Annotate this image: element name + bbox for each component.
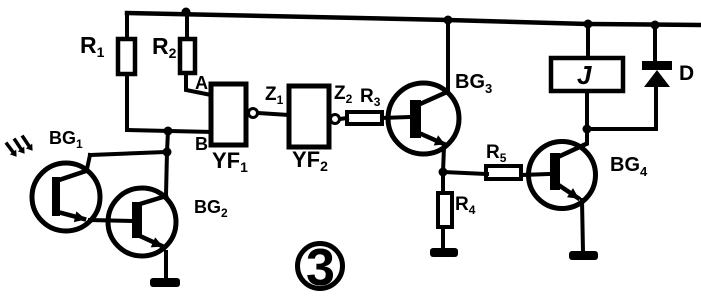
transistor BG1 (photo) xyxy=(32,155,100,231)
wire R1 bottom lead xyxy=(125,74,129,130)
node BG3 emitter junction xyxy=(439,168,448,177)
resistor R5 xyxy=(486,166,521,179)
wire R3 to BG3 base xyxy=(382,117,411,118)
resistor R3 xyxy=(347,112,382,124)
wire R2 top lead xyxy=(185,12,189,39)
wire R5 to BG4 base xyxy=(521,174,550,175)
wire relay bottom lead xyxy=(585,91,589,129)
wire YF2 output to R3 xyxy=(340,118,347,119)
svg-text:B: B xyxy=(195,134,208,154)
wire collectors horizontal xyxy=(90,152,167,155)
node collectors junction xyxy=(163,148,172,157)
figure number 3 xyxy=(298,239,343,297)
transistor BG4 xyxy=(529,129,596,252)
node BG3 collector on rail xyxy=(444,16,453,25)
svg-text:3: 3 xyxy=(306,239,335,297)
wire top supply rail xyxy=(127,13,700,25)
node diode top on rail xyxy=(651,21,660,30)
node R2 top junction xyxy=(182,8,191,17)
svg-text:D: D xyxy=(679,62,694,85)
wire relay top lead xyxy=(586,24,590,58)
resistor R4 xyxy=(438,193,452,227)
wire R4 to ground xyxy=(441,227,445,249)
resistor R2 xyxy=(180,39,195,73)
light arrows into BG1 xyxy=(7,137,29,152)
wire node B horizontal xyxy=(127,130,211,132)
wire junction B down to collectors xyxy=(167,131,168,152)
resistor R1 xyxy=(118,39,135,74)
node B junction xyxy=(164,127,173,136)
ground below R4 xyxy=(430,248,458,257)
wire YF1 output to YF2 input xyxy=(258,113,289,115)
wire junction to diode bottom xyxy=(587,87,656,129)
relay J xyxy=(551,58,623,91)
wire R1 top lead xyxy=(125,13,129,39)
ground below BG4 xyxy=(569,251,598,260)
ground below BG2 xyxy=(150,278,180,287)
node BG4 collector junction xyxy=(583,125,592,134)
transistor BG3 xyxy=(388,20,459,172)
node relay top on rail xyxy=(584,20,593,29)
svg-text:J: J xyxy=(577,60,592,90)
wire BG1 emitter to BG2 base xyxy=(90,220,132,221)
diode D xyxy=(642,61,672,87)
gate YF1 xyxy=(211,84,258,145)
wire diode top lead xyxy=(653,25,657,61)
wire junction to R4 xyxy=(441,172,445,193)
transistor BG2 xyxy=(108,152,176,277)
svg-text:A: A xyxy=(195,73,208,93)
wire junction to R5 xyxy=(443,172,487,174)
gate YF2 xyxy=(289,86,340,147)
wire R2 bottom lead to gate input A xyxy=(186,73,211,95)
